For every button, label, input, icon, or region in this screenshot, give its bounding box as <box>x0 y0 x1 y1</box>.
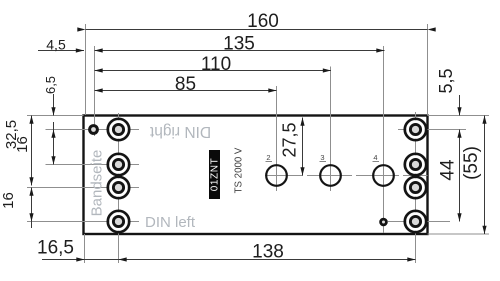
center line big-right col <box>415 112 417 263</box>
svg-text:Bandseite: Bandseite <box>89 150 106 217</box>
center line mid row <box>265 175 428 177</box>
ext line row2 left <box>46 164 140 166</box>
dim 32,5 <box>31 116 33 186</box>
center line circle3 col <box>330 67 332 192</box>
svg-text:110: 110 <box>201 54 231 75</box>
big hole white discs <box>109 120 425 231</box>
ext line plate-top left <box>27 115 84 117</box>
svg-text:01ZNT: 01ZNT <box>209 158 220 192</box>
svg-text:TS 2000 V: TS 2000 V <box>234 147 245 193</box>
svg-text:85: 85 <box>175 74 196 95</box>
dim 135 <box>95 50 385 52</box>
svg-text:5,5: 5,5 <box>436 68 456 93</box>
barcode label 01ZNT <box>209 150 220 199</box>
big hole L2 <box>108 154 129 175</box>
dim 138 <box>119 259 416 261</box>
dim 16 upper <box>53 122 55 165</box>
ext line row1 left <box>46 129 140 131</box>
svg-text:(55): (55) <box>461 146 482 180</box>
big hole L3 <box>108 177 129 198</box>
circle 2 <box>266 165 287 186</box>
plate outline <box>84 116 428 235</box>
svg-text:16: 16 <box>0 192 17 209</box>
svg-text:2: 2 <box>266 153 270 162</box>
svg-text:138: 138 <box>252 242 284 263</box>
big hole L1 <box>108 119 129 140</box>
ext line plate-left up <box>85 24 87 115</box>
dim 4,5 <box>38 50 84 52</box>
svg-text:32,5: 32,5 <box>3 120 20 149</box>
dim 16,5 <box>42 259 119 261</box>
circle 3 <box>320 165 341 186</box>
ext line row4 right <box>388 221 450 223</box>
circle 4 <box>373 165 394 186</box>
svg-text:3: 3 <box>320 153 324 162</box>
big hole R4 <box>405 211 426 232</box>
svg-text:4: 4 <box>373 153 377 162</box>
svg-text:16,5: 16,5 <box>37 238 74 259</box>
big hole R3 <box>405 177 426 198</box>
center line big-left col <box>118 113 120 263</box>
svg-text:160: 160 <box>247 11 279 32</box>
dim 44 <box>459 130 461 222</box>
svg-text:135: 135 <box>223 34 255 55</box>
dim 16 lower <box>31 188 33 229</box>
dim 5,5 <box>459 95 461 116</box>
svg-text:27,5: 27,5 <box>280 122 300 157</box>
big hole L4 <box>108 211 129 232</box>
ext line plate-top right <box>428 115 490 117</box>
big hole R2 <box>405 154 426 175</box>
ext line row1 right <box>398 129 466 131</box>
dim (55) <box>484 116 486 235</box>
ext line plate-right up <box>427 24 429 116</box>
ext line plate-bottom right <box>428 233 490 235</box>
center line circle4 col <box>383 46 385 233</box>
ext line plate-left down <box>84 234 86 263</box>
ext line small-hole col up <box>94 46 96 136</box>
svg-text:DIN left: DIN left <box>145 214 196 231</box>
dim 160 <box>86 29 428 31</box>
dim 85 <box>95 90 277 92</box>
small hole 2 <box>381 219 387 225</box>
dim 27,5 <box>302 118 304 176</box>
svg-text:4,5: 4,5 <box>46 37 66 53</box>
small hole 1 <box>90 126 98 134</box>
ext line row4 left <box>27 221 139 223</box>
ext line row3 left <box>27 187 139 189</box>
center line circle2 col <box>276 86 278 191</box>
dim 110 <box>95 70 332 72</box>
svg-text:44: 44 <box>438 159 459 181</box>
dim 6,5 <box>53 94 55 116</box>
svg-text:DIN right: DIN right <box>149 123 211 140</box>
big hole R1 <box>405 119 426 140</box>
svg-text:6,5: 6,5 <box>43 76 58 94</box>
